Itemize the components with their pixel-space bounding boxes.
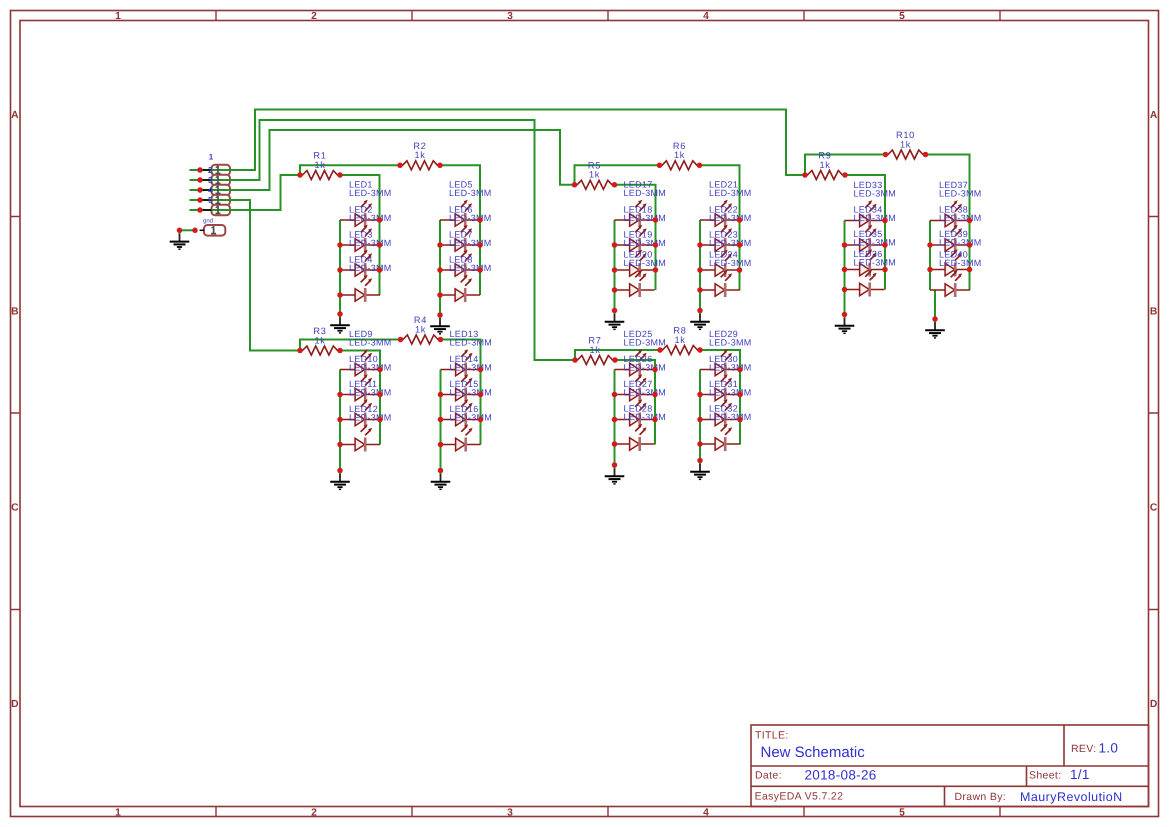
svg-text:LED-3MM: LED-3MM	[449, 188, 492, 198]
wire R3 input to R4 input	[300, 340, 401, 351]
junction dots LED17-20 column	[612, 217, 659, 313]
svg-text:LED-3MM: LED-3MM	[624, 388, 667, 398]
svg-text:Drawn By:: Drawn By:	[955, 791, 1007, 803]
svg-text:LED-3MM: LED-3MM	[939, 213, 982, 223]
svg-text:LED-3MM: LED-3MM	[349, 413, 392, 423]
connector pin gnd	[200, 226, 217, 233]
junction dots R3 terminals	[297, 348, 343, 354]
resistor R5	[575, 161, 615, 190]
svg-text:A: A	[1150, 110, 1158, 121]
svg-text:LED-3MM: LED-3MM	[624, 188, 667, 198]
svg-text:2: 2	[208, 165, 213, 175]
svg-text:1k: 1k	[900, 139, 911, 149]
title block border	[751, 725, 1149, 807]
svg-text:1k: 1k	[819, 160, 830, 170]
wire LED21-24 left rail to ground	[699, 220, 701, 311]
wire R7 output to LED25-28 right rail	[615, 360, 655, 445]
svg-text:LED-3MM: LED-3MM	[624, 213, 667, 223]
LED LED4 (LED-3MM)	[340, 255, 392, 303]
svg-text:1k: 1k	[674, 335, 685, 345]
svg-text:4: 4	[703, 11, 709, 22]
resistor R2	[400, 141, 440, 170]
junction dots R1 terminals	[297, 172, 343, 178]
LED LED39 (LED-3MM)	[930, 229, 982, 277]
junction dots LED25-28 column	[612, 367, 658, 468]
wire LED37-40 left rail	[929, 221, 931, 291]
LED LED5 (LED-3MM)	[440, 180, 492, 228]
connector pin gnd body	[204, 225, 225, 236]
svg-text:TITLE:: TITLE:	[755, 730, 789, 742]
LED LED32 (LED-3MM)	[700, 404, 752, 452]
svg-text:LED-3MM: LED-3MM	[854, 258, 897, 268]
LED LED23 (LED-3MM)	[700, 230, 752, 278]
svg-text:New Schematic: New Schematic	[761, 744, 866, 761]
svg-text:LED-3MM: LED-3MM	[349, 263, 392, 273]
LED LED29 (LED-3MM)	[700, 329, 752, 377]
wire R6 output to LED21-24 right rail	[700, 165, 740, 290]
connector pin 5 body	[212, 205, 231, 215]
LED LED31 (LED-3MM)	[700, 379, 752, 427]
junction dots LED5-8 column	[437, 217, 483, 318]
svg-text:1/1: 1/1	[1070, 767, 1090, 782]
wire R5 output to LED17-20 right rail	[615, 185, 656, 290]
svg-text:2: 2	[311, 807, 317, 818]
svg-text:LED-3MM: LED-3MM	[939, 258, 982, 268]
svg-text:1k: 1k	[314, 335, 325, 345]
LED LED15 (LED-3MM)	[441, 379, 493, 427]
svg-text:LED-3MM: LED-3MM	[449, 213, 492, 223]
LED LED9 (LED-3MM)	[340, 329, 392, 377]
ground LED13-16 column	[431, 471, 451, 490]
svg-text:2018-08-26: 2018-08-26	[805, 767, 877, 782]
wire R5 input to R6 input	[575, 165, 660, 185]
LED LED13 (LED-3MM)	[441, 329, 493, 377]
svg-text:4: 4	[703, 807, 709, 818]
resistor R10	[886, 130, 926, 159]
resistor R6	[660, 141, 700, 170]
svg-text:LED-3MM: LED-3MM	[349, 363, 392, 373]
junction dots R4 terminals	[398, 337, 444, 343]
svg-text:1: 1	[115, 807, 121, 818]
wire net 5: connector pin 5 to R1	[190, 175, 301, 210]
svg-text:EasyEDA V5.7.22: EasyEDA V5.7.22	[755, 791, 844, 803]
LED LED35 (LED-3MM)	[845, 229, 897, 277]
frame row tick marks left	[11, 217, 21, 610]
svg-text:2: 2	[311, 11, 317, 22]
svg-text:LED-3MM: LED-3MM	[624, 238, 667, 248]
svg-text:LED-3MM: LED-3MM	[854, 238, 897, 248]
svg-text:LED-3MM: LED-3MM	[709, 338, 752, 348]
connector pin 3 body	[212, 185, 231, 195]
junction dots LED33-36 column	[842, 218, 888, 318]
connector pin 2	[200, 176, 221, 184]
LED LED34 (LED-3MM)	[845, 205, 897, 253]
LED LED1 (LED-3MM)	[340, 180, 392, 228]
junction dots R8 terminals	[657, 347, 703, 353]
LED LED27 (LED-3MM)	[615, 379, 667, 427]
connector pin 2 body	[212, 175, 231, 185]
LED LED18 (LED-3MM)	[615, 205, 667, 253]
svg-text:LED-3MM: LED-3MM	[349, 338, 392, 348]
resistor R1	[300, 151, 340, 180]
wire R1 output to LED1-4 right rail	[340, 175, 380, 295]
LED LED19 (LED-3MM)	[615, 230, 667, 278]
LED LED24 (LED-3MM)	[700, 250, 752, 298]
wire R4 output to LED13-16 right rail	[441, 340, 481, 445]
svg-text:gnd: gnd	[203, 217, 213, 224]
LED LED12 (LED-3MM)	[340, 404, 392, 452]
wire net 2: connector pin 2 to R7	[190, 120, 576, 360]
wire R9 input to R10 input	[805, 155, 886, 176]
svg-text:5: 5	[899, 11, 905, 22]
wire LED33-36 left rail to ground	[844, 221, 846, 315]
svg-text:LED-3MM: LED-3MM	[450, 413, 493, 423]
svg-text:Date:: Date:	[755, 769, 782, 781]
LED LED21 (LED-3MM)	[700, 180, 752, 228]
LED LED10 (LED-3MM)	[340, 354, 392, 402]
LED LED40 (LED-3MM)	[930, 250, 982, 298]
wire gnd pin to ground	[180, 229, 196, 231]
ground LED37-40 column	[925, 319, 945, 338]
svg-text:LED-3MM: LED-3MM	[624, 258, 667, 268]
svg-text:LED-3MM: LED-3MM	[450, 338, 493, 348]
svg-text:LED-3MM: LED-3MM	[349, 238, 392, 248]
svg-text:1k: 1k	[674, 150, 685, 160]
LED LED25 (LED-3MM)	[615, 329, 667, 377]
svg-text:1: 1	[115, 11, 121, 22]
LED LED8 (LED-3MM)	[440, 255, 492, 303]
svg-text:3: 3	[208, 175, 213, 185]
svg-text:LED-3MM: LED-3MM	[450, 388, 493, 398]
svg-text:1k: 1k	[589, 170, 600, 180]
ground LED25-28 column	[605, 465, 625, 484]
wire R7 input to R8 input	[575, 350, 660, 360]
LED LED2 (LED-3MM)	[340, 205, 392, 253]
junction dots R10 terminals	[883, 152, 929, 158]
svg-text:LED-3MM: LED-3MM	[349, 213, 392, 223]
svg-text:1k: 1k	[414, 150, 425, 160]
svg-text:1k: 1k	[415, 324, 426, 334]
wire net 1: connector pin 1 to R9	[190, 110, 806, 176]
wire LED29-32 left rail to ground	[699, 370, 701, 461]
junction dots R5 terminals	[572, 182, 618, 188]
LED LED7 (LED-3MM)	[440, 230, 492, 278]
ground LED33-36 column	[835, 315, 855, 334]
junction dots LED1-4 column	[337, 217, 382, 317]
svg-text:Sheet:: Sheet:	[1029, 770, 1061, 782]
wire R9 output to LED33-36 right rail	[845, 175, 885, 290]
svg-text:LED-3MM: LED-3MM	[939, 189, 982, 199]
LED LED17 (LED-3MM)	[615, 180, 667, 228]
resistor R9	[805, 151, 845, 180]
ground LED9-12 column	[330, 471, 350, 490]
wire R3 output to LED9-12 right rail	[340, 351, 380, 445]
junction dots LED29-32 column	[697, 367, 743, 464]
junction dots LED9-12 column	[337, 367, 383, 474]
junction dots R6 terminals	[657, 163, 703, 169]
junction dots LED37-40 column	[927, 218, 972, 322]
LED LED36 (LED-3MM)	[845, 249, 897, 297]
ground LED5-8 column	[430, 315, 450, 334]
wire LED13-16 left rail to ground	[440, 370, 442, 471]
LED LED28 (LED-3MM)	[615, 404, 667, 452]
svg-text:4: 4	[208, 185, 213, 195]
svg-text:B: B	[11, 306, 18, 317]
LED LED37 (LED-3MM)	[930, 180, 982, 228]
svg-text:1: 1	[209, 152, 214, 161]
ground LED17-20 column	[605, 311, 625, 330]
wire net 4: connector pin 4 to R3	[190, 200, 301, 351]
wire LED9-12 left rail to ground	[339, 370, 341, 471]
resistor R3	[300, 326, 340, 355]
svg-text:LED-3MM: LED-3MM	[349, 188, 392, 198]
svg-text:1k: 1k	[314, 160, 325, 170]
svg-text:A: A	[11, 110, 19, 121]
LED LED22 (LED-3MM)	[700, 205, 752, 253]
svg-text:C: C	[1150, 503, 1158, 514]
LED LED38 (LED-3MM)	[930, 205, 982, 253]
LED LED11 (LED-3MM)	[340, 379, 392, 427]
resistor R8	[660, 326, 700, 355]
junction dots LED21-24 column	[697, 217, 742, 313]
frame column tick marks bottom	[216, 807, 1000, 817]
ground (connector gnd net)	[170, 230, 190, 249]
ground LED1-4 column	[330, 314, 350, 333]
LED LED14 (LED-3MM)	[441, 354, 493, 402]
wire net 3: connector pin 3 to R5	[190, 130, 575, 190]
junction dots R7 terminals	[572, 357, 618, 363]
svg-text:MauryRevolutioN: MauryRevolutioN	[1020, 790, 1123, 804]
svg-text:LED-3MM: LED-3MM	[709, 213, 752, 223]
svg-text:LED-3MM: LED-3MM	[709, 363, 752, 373]
wire LED25-28 left rail to ground	[614, 370, 616, 466]
svg-text:LED-3MM: LED-3MM	[709, 388, 752, 398]
LED LED16 (LED-3MM)	[441, 404, 493, 452]
wire R2 output to LED5-8 right rail	[440, 165, 480, 295]
LED LED3 (LED-3MM)	[340, 230, 392, 278]
LED LED6 (LED-3MM)	[440, 205, 492, 253]
svg-text:LED-3MM: LED-3MM	[449, 263, 492, 273]
LED LED30 (LED-3MM)	[700, 354, 752, 402]
svg-text:LED-3MM: LED-3MM	[449, 238, 492, 248]
svg-text:3: 3	[507, 11, 513, 22]
connector pin 1	[200, 166, 221, 174]
wire R1 input to R2 input	[300, 165, 400, 175]
svg-text:LED-3MM: LED-3MM	[709, 258, 752, 268]
svg-text:1.0: 1.0	[1099, 741, 1119, 756]
junction dots R2 terminals	[397, 163, 443, 169]
svg-text:C: C	[11, 503, 19, 514]
svg-text:D: D	[1150, 699, 1157, 710]
svg-text:1k: 1k	[589, 345, 600, 355]
wire R10 output to LED37-40 right rail	[926, 155, 970, 291]
LED LED20 (LED-3MM)	[615, 250, 667, 298]
frame column tick marks top	[216, 11, 1000, 21]
svg-text:LED-3MM: LED-3MM	[624, 412, 667, 422]
svg-text:LED-3MM: LED-3MM	[624, 338, 667, 348]
resistor R4	[401, 315, 441, 344]
connector pin 5	[200, 206, 221, 214]
svg-text:LED-3MM: LED-3MM	[709, 238, 752, 248]
junction dots connector pins	[177, 167, 203, 233]
connector pin 3	[200, 186, 221, 194]
connector pin 4 body	[212, 195, 231, 205]
svg-text:LED-3MM: LED-3MM	[854, 213, 897, 223]
junction dots LED13-16 column	[438, 367, 484, 474]
ground LED29-32 column	[690, 461, 710, 480]
svg-text:LED-3MM: LED-3MM	[709, 188, 752, 198]
wire LED5-8 left rail to ground	[439, 220, 441, 315]
svg-text:B: B	[1150, 306, 1157, 317]
resistor R7	[575, 336, 615, 365]
svg-text:REV:: REV:	[1071, 743, 1097, 755]
junction dots R9 terminals	[802, 172, 848, 178]
svg-text:5: 5	[208, 195, 213, 205]
svg-text:3: 3	[507, 807, 513, 818]
svg-text:LED-3MM: LED-3MM	[624, 363, 667, 373]
wire R8 output to LED29-32 right rail	[700, 350, 740, 445]
svg-text:LED-3MM: LED-3MM	[349, 388, 392, 398]
wire LED1-4 left rail to ground	[339, 220, 341, 314]
svg-text:LED-3MM: LED-3MM	[939, 238, 982, 248]
frame row tick marks right	[1149, 217, 1159, 610]
wire LED17-20 left rail to ground	[614, 220, 616, 311]
connector pin 1 body	[212, 165, 231, 175]
wire LED37-40 column to ground	[934, 290, 936, 319]
LED LED26 (LED-3MM)	[615, 354, 667, 402]
svg-text:LED-3MM: LED-3MM	[450, 363, 493, 373]
ground LED21-24 column	[690, 311, 710, 330]
svg-text:D: D	[11, 699, 18, 710]
svg-text:5: 5	[899, 807, 905, 818]
svg-text:LED-3MM: LED-3MM	[709, 412, 752, 422]
LED LED33 (LED-3MM)	[845, 180, 897, 228]
connector pin 4	[200, 196, 221, 204]
svg-text:LED-3MM: LED-3MM	[854, 189, 897, 199]
